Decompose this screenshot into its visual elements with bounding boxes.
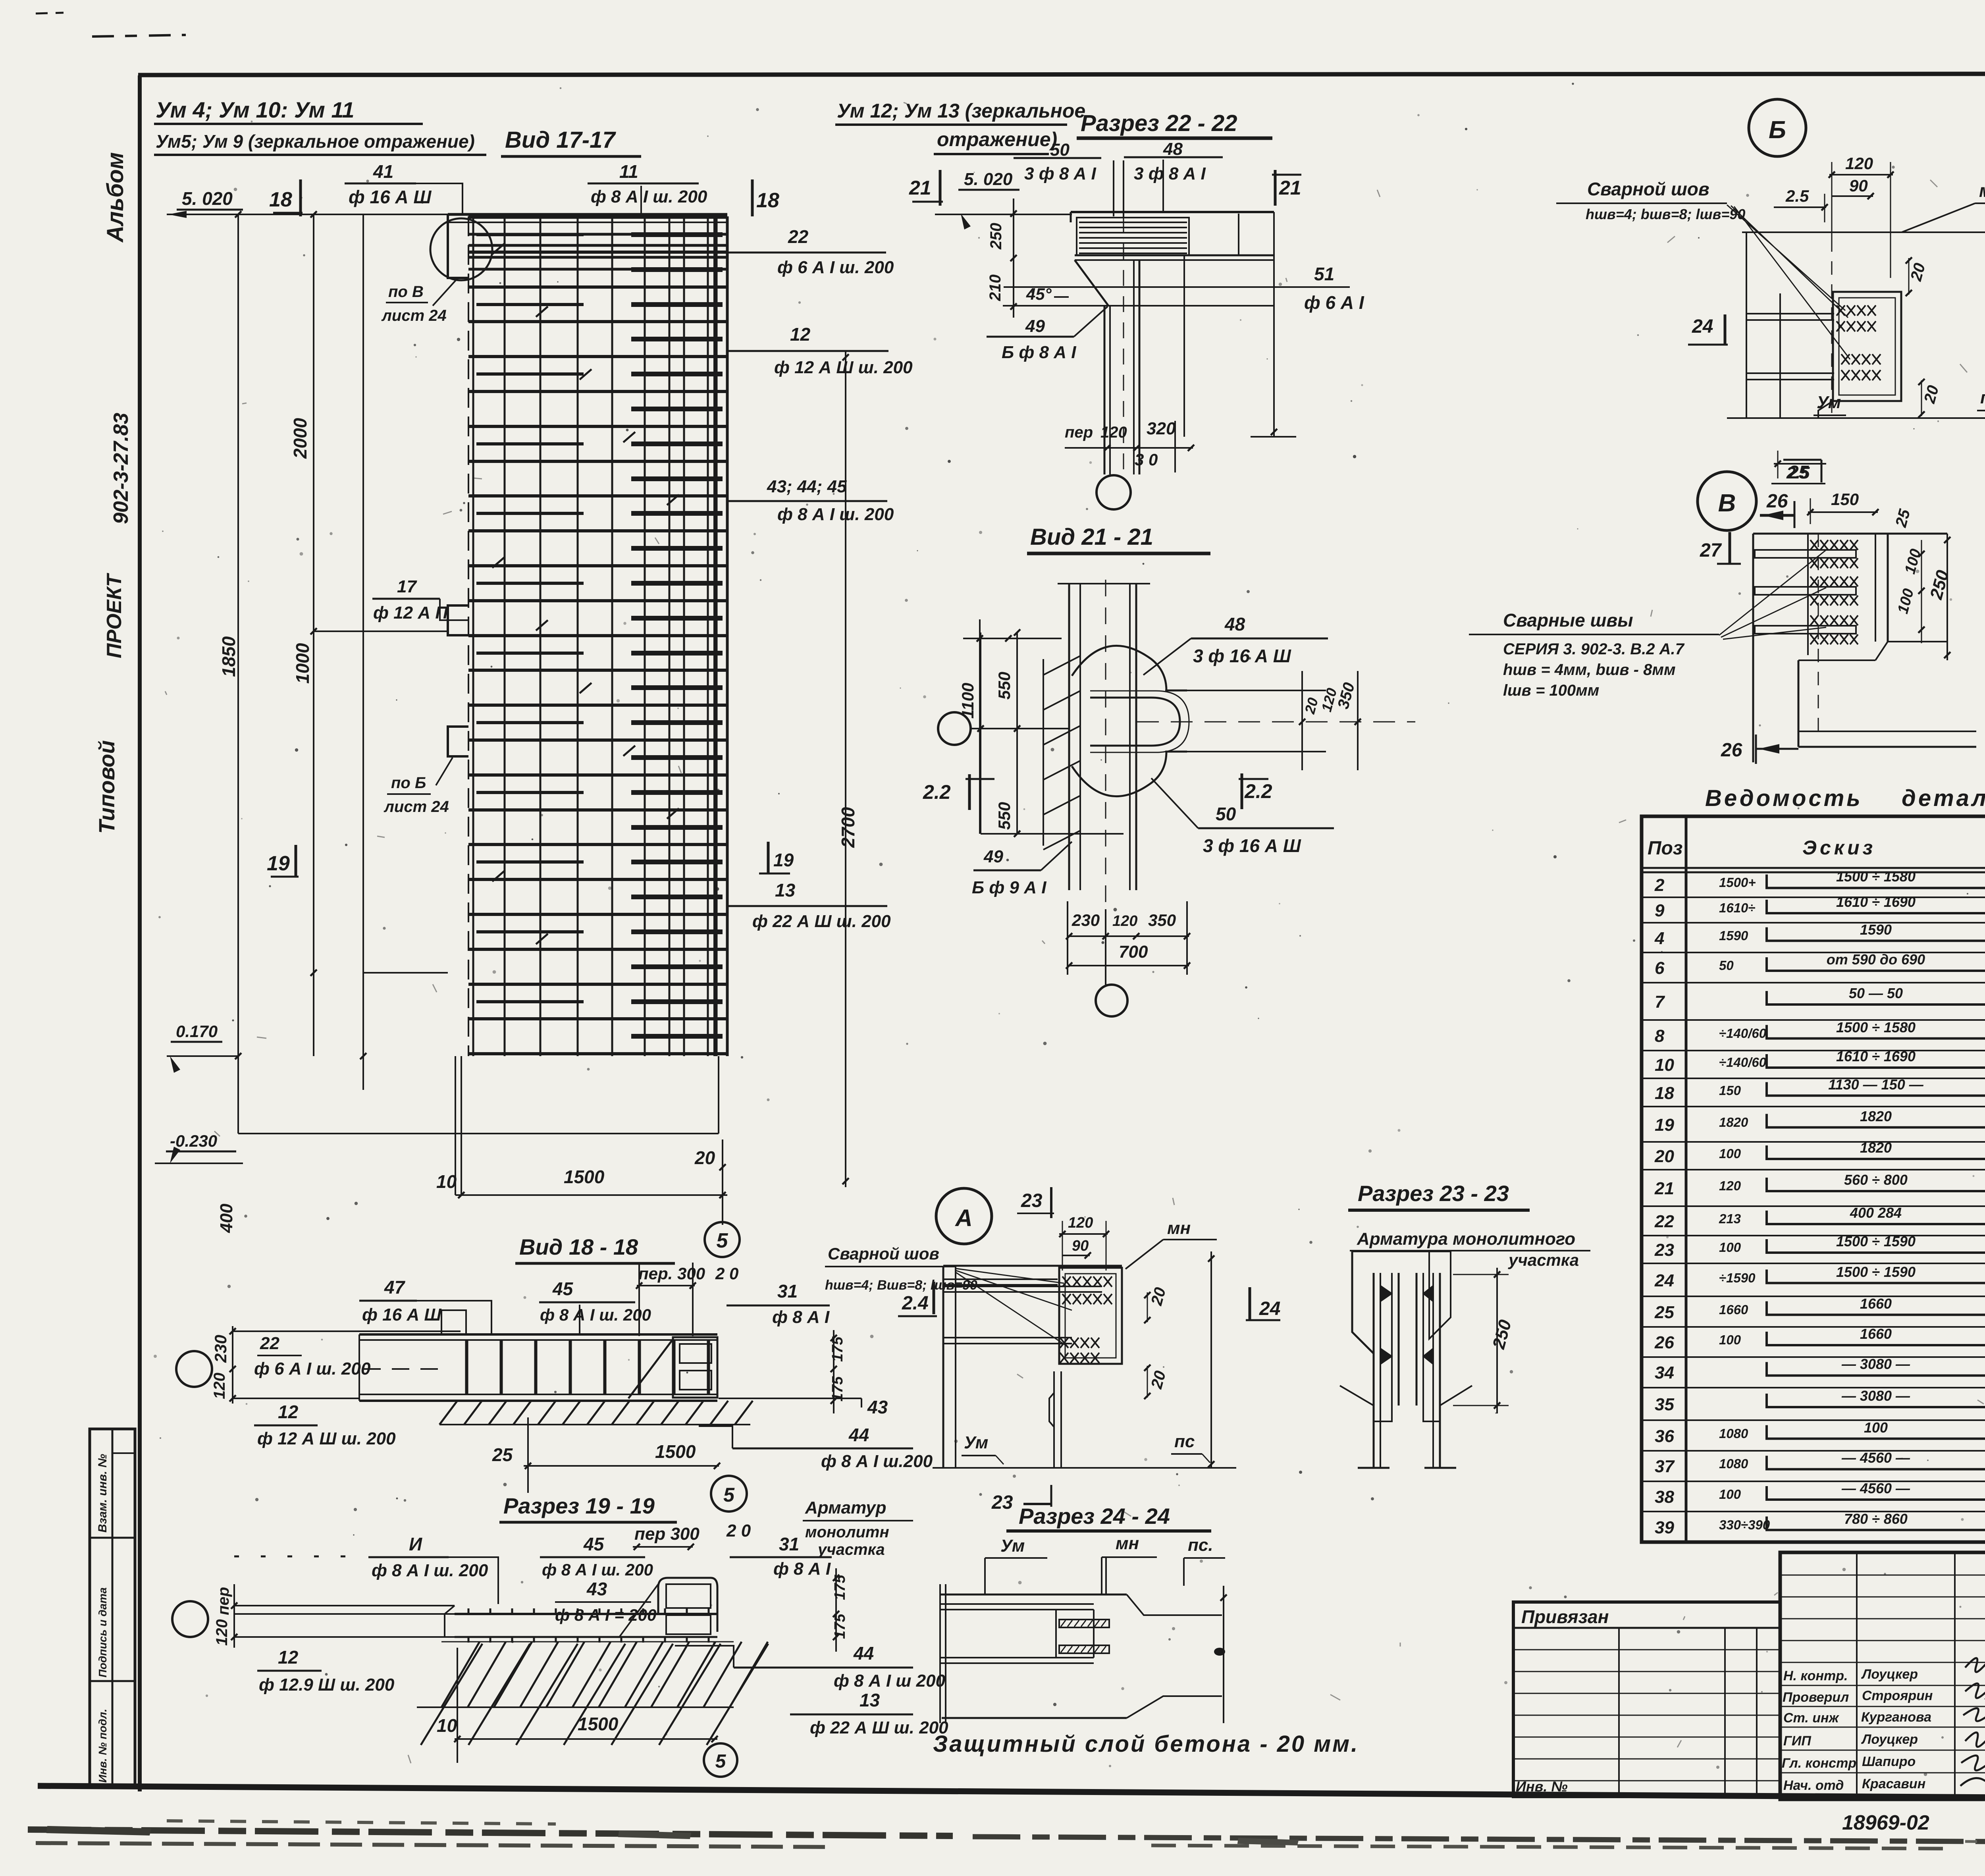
svg-text:3 ф 8 А I: 3 ф 8 А I	[1024, 164, 1097, 183]
svg-text:Ум: Ум	[964, 1433, 988, 1452]
bottom scan smudge band	[28, 1830, 953, 1836]
left table frame	[1642, 816, 1985, 1542]
svg-text:lшв = 100мм: lшв = 100мм	[1503, 682, 1599, 699]
axis circle (view 18-18 left)	[176, 1351, 212, 1387]
svg-text:39: 39	[1655, 1518, 1674, 1537]
detail circle по В	[430, 218, 492, 280]
svg-text:17: 17	[397, 577, 417, 596]
svg-text:36: 36	[1655, 1427, 1674, 1446]
dim line bottom 1500	[455, 1194, 727, 1196]
svg-text:0.170: 0.170	[176, 1022, 218, 1041]
frame left border	[138, 75, 142, 1791]
svg-text:Арматур: Арматур	[805, 1498, 886, 1517]
svg-text:1820: 1820	[1860, 1108, 1892, 1124]
svg-text:19: 19	[267, 852, 290, 875]
svg-text:2700: 2700	[838, 807, 858, 848]
svg-text:24: 24	[1654, 1271, 1674, 1290]
svg-text:— 3080 —: — 3080 —	[1841, 1388, 1910, 1404]
svg-text:участка: участка	[1508, 1251, 1579, 1269]
svg-text:3 ф 16 А Ш: 3 ф 16 А Ш	[1203, 835, 1301, 856]
svg-text:Вид 17-17: Вид 17-17	[505, 127, 616, 153]
svg-text:— 3080 —: — 3080 —	[1841, 1356, 1910, 1372]
view 21-21 right member	[1165, 690, 1326, 691]
view 17-17 crossing ticks	[492, 244, 679, 944]
svg-text:550: 550	[995, 672, 1014, 700]
svg-text:СЕРИЯ 3. 902-3. В.2 А.7: СЕРИЯ 3. 902-3. В.2 А.7	[1503, 640, 1685, 658]
svg-text:Ум: Ум	[1817, 393, 1841, 412]
svg-text:ф 12 А Ш ш. 200: ф 12 А Ш ш. 200	[774, 358, 913, 377]
svg-text:пер: пер	[1065, 424, 1093, 441]
svg-text:Ум 12; Ум 13 (зеркальное: Ум 12; Ум 13 (зеркальное	[837, 100, 1085, 122]
svg-text:Шапиро: Шапиро	[1862, 1754, 1916, 1769]
svg-text:22: 22	[1654, 1212, 1674, 1231]
svg-text:120: 120	[1845, 154, 1873, 173]
svg-text:-0.230: -0.230	[170, 1132, 217, 1150]
svg-text:ГИП: ГИП	[1783, 1733, 1812, 1749]
svg-text:Сварной шов: Сварной шов	[1587, 179, 1709, 199]
svg-text:ф 16 А Ш: ф 16 А Ш	[362, 1305, 441, 1325]
stamp signatures scribbles	[1965, 1658, 1985, 1672]
svg-text:— 4560 —: — 4560 —	[1841, 1450, 1910, 1466]
svg-text:Н. контр.: Н. контр.	[1783, 1668, 1848, 1683]
svg-text:Разрез 23 - 23: Разрез 23 - 23	[1358, 1181, 1509, 1206]
svg-text:320: 320	[1147, 419, 1176, 438]
svg-text:5: 5	[715, 1751, 727, 1772]
dim vertical 790	[313, 214, 314, 1056]
svg-text:Проверил: Проверил	[1783, 1690, 1849, 1705]
dim 1500 (18-18)	[524, 1465, 719, 1467]
svg-text:47: 47	[384, 1277, 406, 1298]
node В weld leaders	[1719, 550, 1826, 639]
view 18-18 left slab	[233, 1330, 461, 1332]
view 17-17 top-left tab	[448, 214, 468, 278]
section 22-22 mid lines	[1004, 286, 1350, 288]
svg-text:700: 700	[1119, 942, 1148, 962]
svg-text:ф 16 А Ш: ф 16 А Ш	[349, 187, 432, 207]
svg-text:22: 22	[788, 226, 809, 247]
section 24-24 right dim	[1223, 1586, 1224, 1723]
svg-text:23: 23	[991, 1492, 1013, 1513]
svg-text:230: 230	[211, 1335, 230, 1363]
svg-text:51: 51	[1314, 264, 1334, 284]
view 21-21 column verticals	[1068, 584, 1070, 890]
svg-text:35: 35	[1655, 1395, 1674, 1414]
svg-text:10: 10	[1655, 1055, 1674, 1075]
svg-text:250: 250	[987, 223, 1005, 250]
view 17-17 right heavy bars	[631, 235, 723, 1036]
svg-text:12: 12	[278, 1647, 299, 1668]
svg-text:2 0: 2 0	[726, 1521, 751, 1541]
svg-text:120: 120	[211, 1373, 228, 1399]
svg-text:2.2: 2.2	[923, 781, 951, 803]
svg-text:Б: Б	[1769, 116, 1786, 144]
svg-text:ф 8 А I ш. 200: ф 8 А I ш. 200	[591, 187, 707, 206]
svg-text:3 ф 16 А Ш: 3 ф 16 А Ш	[1193, 646, 1291, 666]
svg-text:Нач. отд: Нач. отд	[1783, 1778, 1844, 1793]
svg-text:2.4: 2.4	[902, 1293, 929, 1314]
svg-text:1080: 1080	[1719, 1456, 1748, 1471]
frame top border	[138, 73, 1985, 75]
node Б weld leaders	[1727, 205, 1850, 359]
svg-text:31: 31	[777, 1281, 798, 1301]
svg-text:лист 24: лист 24	[384, 798, 449, 816]
svg-text:Ум5; Ум 9 (зеркальное отражени: Ум5; Ум 9 (зеркальное отражение)	[156, 131, 475, 152]
node A welded bars	[944, 1286, 1102, 1287]
svg-text:19: 19	[1655, 1115, 1674, 1135]
svg-text:1610 ÷ 1690: 1610 ÷ 1690	[1836, 894, 1916, 910]
svg-text:213: 213	[1719, 1211, 1741, 1226]
svg-text:ф 8 А I ш. 200: ф 8 А I ш. 200	[542, 1560, 653, 1579]
svg-text:ф 6 А I: ф 6 А I	[1304, 292, 1364, 313]
svg-text:120: 120	[1112, 913, 1137, 929]
section 23-23 wedges	[1380, 1286, 1392, 1301]
svg-text:120: 120	[213, 1619, 231, 1646]
svg-text:1500+: 1500+	[1719, 875, 1756, 890]
svg-text:5: 5	[723, 1484, 735, 1506]
svg-text:hшв = 4мм, bшв - 8мм: hшв = 4мм, bшв - 8мм	[1503, 661, 1676, 679]
svg-text:1660: 1660	[1860, 1296, 1892, 1312]
svg-text:5: 5	[717, 1229, 728, 1252]
node В outline	[1752, 534, 1754, 762]
view 19-19 beam chords	[455, 1613, 717, 1615]
svg-text:48: 48	[1224, 614, 1245, 634]
svg-text:мн: мн	[1979, 180, 1985, 201]
svg-text:7: 7	[1655, 992, 1665, 1012]
svg-text:34: 34	[1655, 1363, 1674, 1382]
svg-text:43: 43	[867, 1397, 888, 1417]
svg-text:1100: 1100	[958, 683, 977, 719]
svg-text:400: 400	[217, 1203, 236, 1233]
svg-text:4: 4	[1654, 929, 1664, 948]
axis circle 5 (view 17-17)	[705, 1222, 740, 1257]
svg-text:550: 550	[995, 802, 1014, 830]
dim vertical 2700	[845, 351, 846, 1187]
svg-text:13: 13	[775, 880, 796, 900]
svg-text:1000: 1000	[292, 643, 313, 684]
svg-text:пер 300: пер 300	[634, 1524, 700, 1544]
node A weld marks	[1062, 1276, 1112, 1287]
svg-text:20: 20	[694, 1147, 715, 1168]
dim vertical 600	[237, 214, 239, 1134]
svg-text:1820: 1820	[1860, 1139, 1892, 1156]
scan speckle noise	[934, 338, 937, 341]
svg-text:по В: по В	[388, 283, 424, 301]
svg-text:Инв. № подл.: Инв. № подл.	[96, 1709, 109, 1783]
svg-text:400 284: 400 284	[1850, 1205, 1902, 1221]
svg-text:от 590 до 690: от 590 до 690	[1827, 951, 1925, 968]
svg-text:38: 38	[1655, 1487, 1674, 1507]
svg-text:Б ф 9 А I: Б ф 9 А I	[972, 878, 1046, 897]
svg-text:Лоуцкер: Лоуцкер	[1861, 1667, 1918, 1682]
section 24-24 hatched strips	[1059, 1620, 1109, 1627]
svg-text:пс: пс	[1980, 388, 1985, 407]
svg-text:41: 41	[373, 161, 393, 182]
view 19-19 top hook dots	[468, 1608, 709, 1614]
node В weld marks	[1810, 540, 1858, 550]
svg-text:пер: пер	[215, 1587, 232, 1615]
svg-text:31: 31	[779, 1534, 799, 1554]
svg-text:330÷390: 330÷390	[1719, 1517, 1770, 1532]
svg-text:902-3-27.83: 902-3-27.83	[110, 413, 133, 524]
svg-text:230: 230	[1072, 911, 1100, 929]
svg-text:ф 8 А I ш.200: ф 8 А I ш.200	[821, 1452, 933, 1471]
svg-text:деталей: деталей	[1902, 785, 1985, 811]
svg-text:12: 12	[278, 1402, 299, 1422]
svg-text:2.5: 2.5	[1785, 187, 1809, 205]
svg-text:Ум: Ум	[1000, 1536, 1025, 1556]
view 18-18 stirrups	[466, 1340, 708, 1394]
axis circle 5 (19-19)	[704, 1743, 737, 1777]
svg-text:hшв=4; bшв=8; lшв=90: hшв=4; bшв=8; lшв=90	[1586, 206, 1745, 222]
svg-text:2000: 2000	[290, 418, 310, 459]
svg-text:18: 18	[756, 189, 779, 212]
svg-text:43; 44; 45: 43; 44; 45	[767, 477, 847, 496]
section 24-24 beam	[940, 1594, 1127, 1596]
svg-text:24: 24	[1692, 316, 1713, 337]
svg-text:1500: 1500	[564, 1166, 605, 1187]
svg-text:1850: 1850	[218, 636, 239, 677]
dim 1500 (19-19)	[455, 1738, 717, 1740]
svg-text:Ум 4; Ум 10: Ум 11: Ум 4; Ум 10: Ум 11	[156, 97, 355, 122]
axis circle (21-21 bottom)	[1096, 985, 1127, 1016]
stamp привязан box	[1513, 1602, 1780, 1797]
svg-text:45: 45	[583, 1534, 605, 1554]
section 22-22 wall	[1104, 306, 1106, 474]
svg-text:ф 6 А I ш. 200: ф 6 А I ш. 200	[777, 258, 894, 277]
stamp outer frame	[1780, 1552, 1985, 1799]
svg-text:5. 020: 5. 020	[182, 188, 233, 209]
view 17-17 top chord	[448, 213, 727, 216]
svg-text:18: 18	[269, 188, 292, 211]
svg-text:Привязан: Привязан	[1521, 1606, 1609, 1627]
svg-text:100: 100	[1719, 1332, 1741, 1347]
svg-text:ф 8 А I ш. 200: ф 8 А I ш. 200	[777, 505, 894, 524]
svg-text:÷140/60: ÷140/60	[1719, 1055, 1767, 1070]
svg-text:1500: 1500	[578, 1714, 619, 1734]
svg-text:1500 ÷ 1590: 1500 ÷ 1590	[1836, 1264, 1916, 1280]
svg-text:В: В	[1718, 490, 1736, 517]
svg-text:1610 ÷ 1690: 1610 ÷ 1690	[1836, 1048, 1916, 1064]
svg-text:÷140/60: ÷140/60	[1719, 1026, 1767, 1041]
axis circle (22-22 bottom)	[1097, 475, 1131, 509]
svg-text:49: 49	[983, 847, 1003, 866]
svg-text:1660: 1660	[1860, 1326, 1892, 1342]
svg-text:— 4560 —: — 4560 —	[1841, 1480, 1910, 1496]
svg-text:37: 37	[1655, 1457, 1675, 1476]
view 17-17 grid thick bars	[468, 217, 727, 1054]
svg-text:2.2: 2.2	[1244, 780, 1272, 802]
svg-text:2 0: 2 0	[715, 1264, 738, 1283]
node circle Б	[1749, 99, 1806, 156]
svg-text:1500 ÷ 1580: 1500 ÷ 1580	[1836, 1019, 1916, 1035]
svg-text:Разрез 19 - 19: Разрез 19 - 19	[503, 1493, 655, 1518]
svg-text:Инв. №: Инв. №	[1516, 1778, 1568, 1795]
svg-text:Ст. инж: Ст. инж	[1783, 1710, 1840, 1726]
svg-text:24: 24	[1259, 1298, 1280, 1319]
svg-text:25: 25	[1654, 1303, 1674, 1322]
svg-text:Гл. констр: Гл. констр	[1782, 1756, 1856, 1771]
section 23-23 outline	[1352, 1251, 1451, 1339]
svg-text:ф 6 А I ш. 200: ф 6 А I ш. 200	[254, 1359, 371, 1379]
svg-text:22: 22	[260, 1334, 279, 1353]
view 17-17 left tab по Б	[448, 727, 468, 756]
svg-text:19: 19	[773, 850, 794, 870]
svg-text:по Б: по Б	[391, 774, 426, 792]
view 17-17 wall below grid	[238, 1133, 719, 1134]
dim vertical 915	[362, 214, 364, 1090]
inventory strip box	[90, 1429, 135, 1785]
svg-text:50: 50	[1050, 140, 1070, 160]
view 18-18 right end box	[673, 1337, 717, 1398]
svg-text:13: 13	[860, 1690, 880, 1710]
svg-text:ф 8 А I: ф 8 А I	[773, 1559, 831, 1579]
node Б outline	[1746, 232, 1747, 418]
svg-text:18969-02: 18969-02	[1842, 1811, 1929, 1834]
svg-text:И: И	[409, 1534, 422, 1554]
svg-text:20: 20	[1654, 1147, 1674, 1166]
view 19-19 big hatch	[441, 1642, 768, 1707]
svg-text:6: 6	[1655, 958, 1665, 978]
svg-text:44: 44	[848, 1425, 869, 1445]
stamp left grid	[1780, 1575, 1985, 1641]
svg-text:25: 25	[1788, 462, 1810, 482]
svg-text:Поз: Поз	[1648, 838, 1682, 859]
top-left registration dashes	[92, 35, 186, 37]
svg-text:150: 150	[1719, 1083, 1741, 1098]
svg-text:монолитн: монолитн	[805, 1523, 889, 1541]
svg-text:ф 22 А Ш ш. 200: ф 22 А Ш ш. 200	[752, 912, 891, 931]
axis circle 5 (18-18)	[711, 1476, 747, 1512]
view 21-21 wall hatch	[1043, 656, 1080, 850]
svg-text:45: 45	[552, 1278, 574, 1299]
svg-text:ф 8 А I ш. 200: ф 8 А I ш. 200	[540, 1305, 651, 1324]
svg-text:1610÷: 1610÷	[1719, 900, 1756, 915]
svg-text:210: 210	[987, 274, 1004, 301]
svg-text:ф 22 А Ш ш. 200: ф 22 А Ш ш. 200	[810, 1718, 948, 1737]
svg-text:5. 020: 5. 020	[964, 170, 1013, 189]
svg-text:90: 90	[1849, 176, 1868, 195]
svg-text:Взам. инв. №: Взам. инв. №	[96, 1454, 109, 1533]
svg-text:100: 100	[1864, 1419, 1888, 1436]
svg-text:90: 90	[1072, 1238, 1089, 1254]
svg-text:участка: участка	[817, 1541, 885, 1558]
node circle В	[1698, 472, 1756, 530]
svg-text:9: 9	[1655, 901, 1665, 920]
svg-text:45°: 45°	[1026, 285, 1052, 303]
svg-text:1500 ÷ 1580: 1500 ÷ 1580	[1836, 868, 1916, 885]
svg-text:Арматура монолитного: Арматура монолитного	[1357, 1229, 1575, 1249]
dim tick marks left verticals	[310, 628, 317, 634]
svg-text:44: 44	[853, 1643, 874, 1664]
svg-text:120: 120	[1719, 1178, 1741, 1193]
svg-text:ПРОЕКТ: ПРОЕКТ	[103, 573, 126, 658]
svg-text:3 ф 8 А I: 3 ф 8 А I	[1134, 164, 1206, 183]
svg-text:2: 2	[1654, 875, 1665, 895]
section 22-22 chamfer 45	[1075, 260, 1108, 306]
svg-text:ф 12 А Ш ш. 200: ф 12 А Ш ш. 200	[257, 1429, 396, 1448]
view 19-19 right hooks	[658, 1578, 717, 1632]
svg-text:А: А	[954, 1205, 972, 1231]
svg-text:350: 350	[1148, 911, 1176, 929]
svg-text:560 ÷ 800: 560 ÷ 800	[1844, 1172, 1908, 1188]
svg-text:ф 8 А I: ф 8 А I	[772, 1307, 830, 1327]
node Б top line	[1742, 231, 1985, 233]
svg-text:23: 23	[1021, 1190, 1043, 1211]
svg-text:10: 10	[437, 1715, 457, 1736]
axis circle (21-21 left)	[938, 712, 971, 745]
svg-text:Вид 21 - 21: Вид 21 - 21	[1030, 524, 1153, 550]
svg-text:пер. 300: пер. 300	[638, 1264, 705, 1283]
svg-text:ф 12.9 Ш ш. 200: ф 12.9 Ш ш. 200	[259, 1675, 395, 1695]
svg-text:лист 24: лист 24	[381, 307, 447, 324]
node circle А	[936, 1188, 992, 1244]
svg-text:отражение): отражение)	[937, 128, 1057, 150]
svg-text:100: 100	[1719, 1240, 1741, 1255]
svg-text:Защитный слой бетона -: Защитный слой бетона - 20 мм.	[933, 1731, 1359, 1757]
svg-text:Подпись и дата: Подпись и дата	[96, 1587, 109, 1677]
node A outline	[943, 1265, 1122, 1267]
svg-text:пс.: пс.	[1188, 1535, 1213, 1555]
svg-text:1500: 1500	[655, 1441, 696, 1462]
svg-text:27: 27	[1700, 540, 1722, 561]
svg-text:Сварной шов: Сварной шов	[828, 1244, 939, 1263]
svg-text:ф 8 А I ш 200: ф 8 А I ш 200	[834, 1671, 946, 1691]
svg-text:1130 — 150 —: 1130 — 150 —	[1828, 1076, 1923, 1093]
svg-text:мн: мн	[1116, 1534, 1139, 1553]
svg-text:26: 26	[1766, 491, 1788, 512]
svg-text:мн: мн	[1167, 1219, 1191, 1238]
view 17-17 grid verticals	[473, 216, 717, 1056]
svg-text:Типовой: Типовой	[94, 740, 119, 834]
view 21-21 bulb outline	[1072, 646, 1187, 690]
svg-text:1660: 1660	[1719, 1302, 1748, 1317]
svg-text:пс: пс	[1174, 1432, 1195, 1451]
svg-text:26: 26	[1721, 740, 1742, 761]
svg-text:1500 ÷ 1590: 1500 ÷ 1590	[1836, 1233, 1916, 1249]
svg-text:÷1590: ÷1590	[1719, 1271, 1756, 1285]
svg-text:Альбом: Альбом	[102, 152, 128, 243]
svg-text:Разрез 22 - 22: Разрез 22 - 22	[1081, 110, 1237, 136]
node Б weld marks	[1837, 305, 1876, 316]
view 19-19 slab	[234, 1605, 455, 1606]
view 21-21 top dim line	[1058, 583, 1150, 584]
svg-text:120: 120	[1100, 424, 1127, 441]
svg-text:12: 12	[790, 324, 811, 345]
node A dim vertical right	[1210, 1251, 1212, 1468]
view 19-19 top dashed line	[234, 1556, 362, 1558]
dim line top 5.020	[167, 214, 448, 215]
svg-text:21: 21	[909, 177, 931, 199]
frame bottom border	[38, 1786, 1985, 1801]
view 18-18 beam body	[359, 1333, 717, 1336]
svg-text:25: 25	[492, 1444, 513, 1465]
svg-text:49: 49	[1025, 316, 1045, 336]
svg-text:150: 150	[1831, 490, 1859, 509]
svg-text:Вид 18 - 18: Вид 18 - 18	[519, 1234, 638, 1259]
svg-text:Сварные швы: Сварные швы	[1503, 610, 1633, 630]
view 17-17 left tab 17	[448, 605, 468, 635]
svg-text:Курганова: Курганова	[1861, 1710, 1931, 1725]
svg-text:11: 11	[619, 161, 638, 182]
svg-text:100: 100	[1719, 1146, 1741, 1161]
svg-text:1590: 1590	[1719, 928, 1748, 943]
svg-text:Строярин: Строярин	[1862, 1688, 1933, 1703]
svg-text:120: 120	[1068, 1215, 1093, 1231]
svg-text:100: 100	[1719, 1487, 1741, 1502]
svg-text:23: 23	[1654, 1240, 1674, 1260]
svg-text:ф 12 А П: ф 12 А П	[373, 603, 448, 623]
view 17-17 grid right edge double line	[713, 216, 716, 1056]
